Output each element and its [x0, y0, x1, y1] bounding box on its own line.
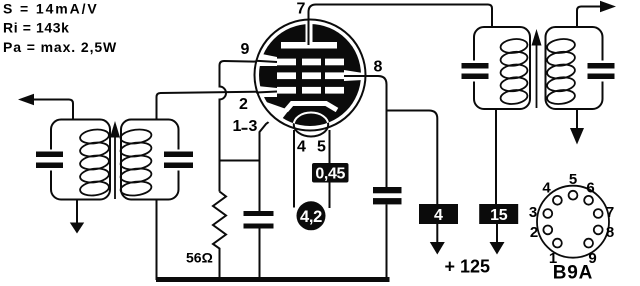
svg-text:+ 125: + 125 [445, 257, 491, 277]
svg-text:0,45: 0,45 [315, 166, 345, 183]
grid g1 row (white dashes) [277, 87, 344, 94]
capacitor C2 (on right edge of T1 secondary can) [164, 150, 193, 171]
pin 8 wire (screen grid out to right) [344, 76, 387, 187]
IF transformer T1 primary can [51, 120, 110, 200]
wire T1 secondary bottom to ground bus [156, 200, 158, 281]
white notch pin 9 entry [257, 53, 277, 66]
capacitor C3 (cathode bypass) [244, 211, 274, 229]
svg-text:6: 6 [586, 180, 594, 197]
coil L4 (T2 secondary) [546, 38, 575, 106]
coil L2 (T1 secondary) [120, 128, 152, 197]
tube envelope outline [255, 20, 366, 131]
heater pin 4 wire [293, 130, 295, 208]
junction wire between R1 and C3 branches [220, 160, 260, 162]
svg-text:Pa = max. 2,5W: Pa = max. 2,5W [3, 39, 117, 55]
svg-text:7: 7 [297, 1, 306, 18]
svg-text:3: 3 [249, 118, 258, 135]
wire pin 9 to cathode network (with hop over grid wire) [220, 61, 278, 192]
core arrow T2 [536, 45, 538, 108]
white wedge cathode lead [251, 98, 289, 128]
heater loop (white over disc) [294, 113, 328, 137]
cathode chevron (white) [286, 104, 337, 111]
heater loop (black outside disc) [294, 113, 328, 137]
ground arrow below T2 secondary [576, 109, 578, 129]
svg-text:Ri = 143k: Ri = 143k [3, 20, 70, 36]
core arrow T1 [114, 137, 116, 199]
capacitor C5 (on left edge of T2 primary can) [462, 61, 489, 82]
white notch pin 2 entry [257, 86, 277, 97]
IF transformer T2 secondary can [546, 27, 603, 109]
wire input to T1 primary top [33, 100, 73, 120]
svg-text:4,2: 4,2 [300, 208, 322, 226]
svg-text:3: 3 [529, 204, 537, 221]
svg-text:7: 7 [606, 204, 614, 221]
coil L1 (T1 primary) [79, 128, 109, 197]
grid g2 row (white dashes) [277, 72, 344, 79]
IF transformer T2 primary can [474, 27, 530, 109]
branch wire to screen current box [387, 111, 438, 205]
svg-text:4: 4 [297, 139, 306, 156]
heater pin 5 wire [329, 130, 331, 208]
capacitor C6 (on right edge of T2 secondary can) [588, 61, 615, 82]
wire C3 to ground bus [259, 229, 261, 281]
heater current box 0,45 [312, 163, 349, 183]
pin 9 wire stub into disc [256, 61, 277, 62]
capacitor C1 (on left edge of T1 primary can) [36, 150, 63, 171]
svg-text:2: 2 [239, 96, 248, 113]
white slit around anode lead [306, 24, 313, 42]
heater voltage circle 4,2 [297, 201, 326, 230]
wire C4 to ground bus [386, 204, 388, 280]
IF transformer T1 secondary can [121, 120, 179, 200]
svg-text:2: 2 [530, 224, 538, 241]
svg-text:4: 4 [434, 207, 443, 224]
svg-text:5: 5 [317, 139, 326, 156]
svg-text:B9A: B9A [553, 263, 593, 284]
B9A pin holes [543, 191, 602, 248]
svg-text:5: 5 [569, 171, 577, 188]
anode lead pin 7 [309, 5, 493, 46]
B9A base outline [537, 186, 609, 258]
svg-text:9: 9 [241, 41, 250, 58]
capacitor C4 (screen decoupling) [373, 187, 402, 204]
coil L3 (T2 primary) [500, 38, 528, 106]
tube V1 electrode disc [259, 24, 361, 126]
svg-text:8: 8 [374, 59, 383, 76]
screen current box 4 [419, 204, 458, 224]
white notch pin 8 exit [344, 70, 363, 81]
tube V1 envelope [255, 20, 366, 131]
wire T2 primary bottom to supply [495, 109, 497, 204]
svg-text:8: 8 [606, 224, 614, 241]
wire cathode pins 1_3 down [260, 109, 288, 212]
grid g3 row (white dashes) [277, 59, 344, 66]
wire T1 secondary top to grid pin 2 [157, 92, 278, 120]
svg-text:S = 14mA/V: S = 14mA/V [3, 1, 99, 17]
input arrow (antenna, pointing left) [18, 94, 34, 105]
arrow below box 4 [436, 224, 438, 243]
anode current box 15 [479, 204, 518, 224]
svg-text:15: 15 [490, 207, 508, 224]
arrow below box 15 [496, 224, 498, 243]
pin 2 wire stub into disc [256, 92, 277, 93]
output arrow (to next stage, pointing right) [577, 7, 601, 28]
resistor R1 56 ohm (zigzag) [213, 192, 226, 281]
svg-text:56Ω: 56Ω [186, 250, 213, 266]
svg-text:1: 1 [233, 118, 242, 135]
anode plate (white bar) [281, 42, 337, 49]
ground bus [156, 277, 390, 282]
svg-text:4: 4 [542, 180, 551, 197]
ground arrow below T1 primary [76, 200, 78, 224]
